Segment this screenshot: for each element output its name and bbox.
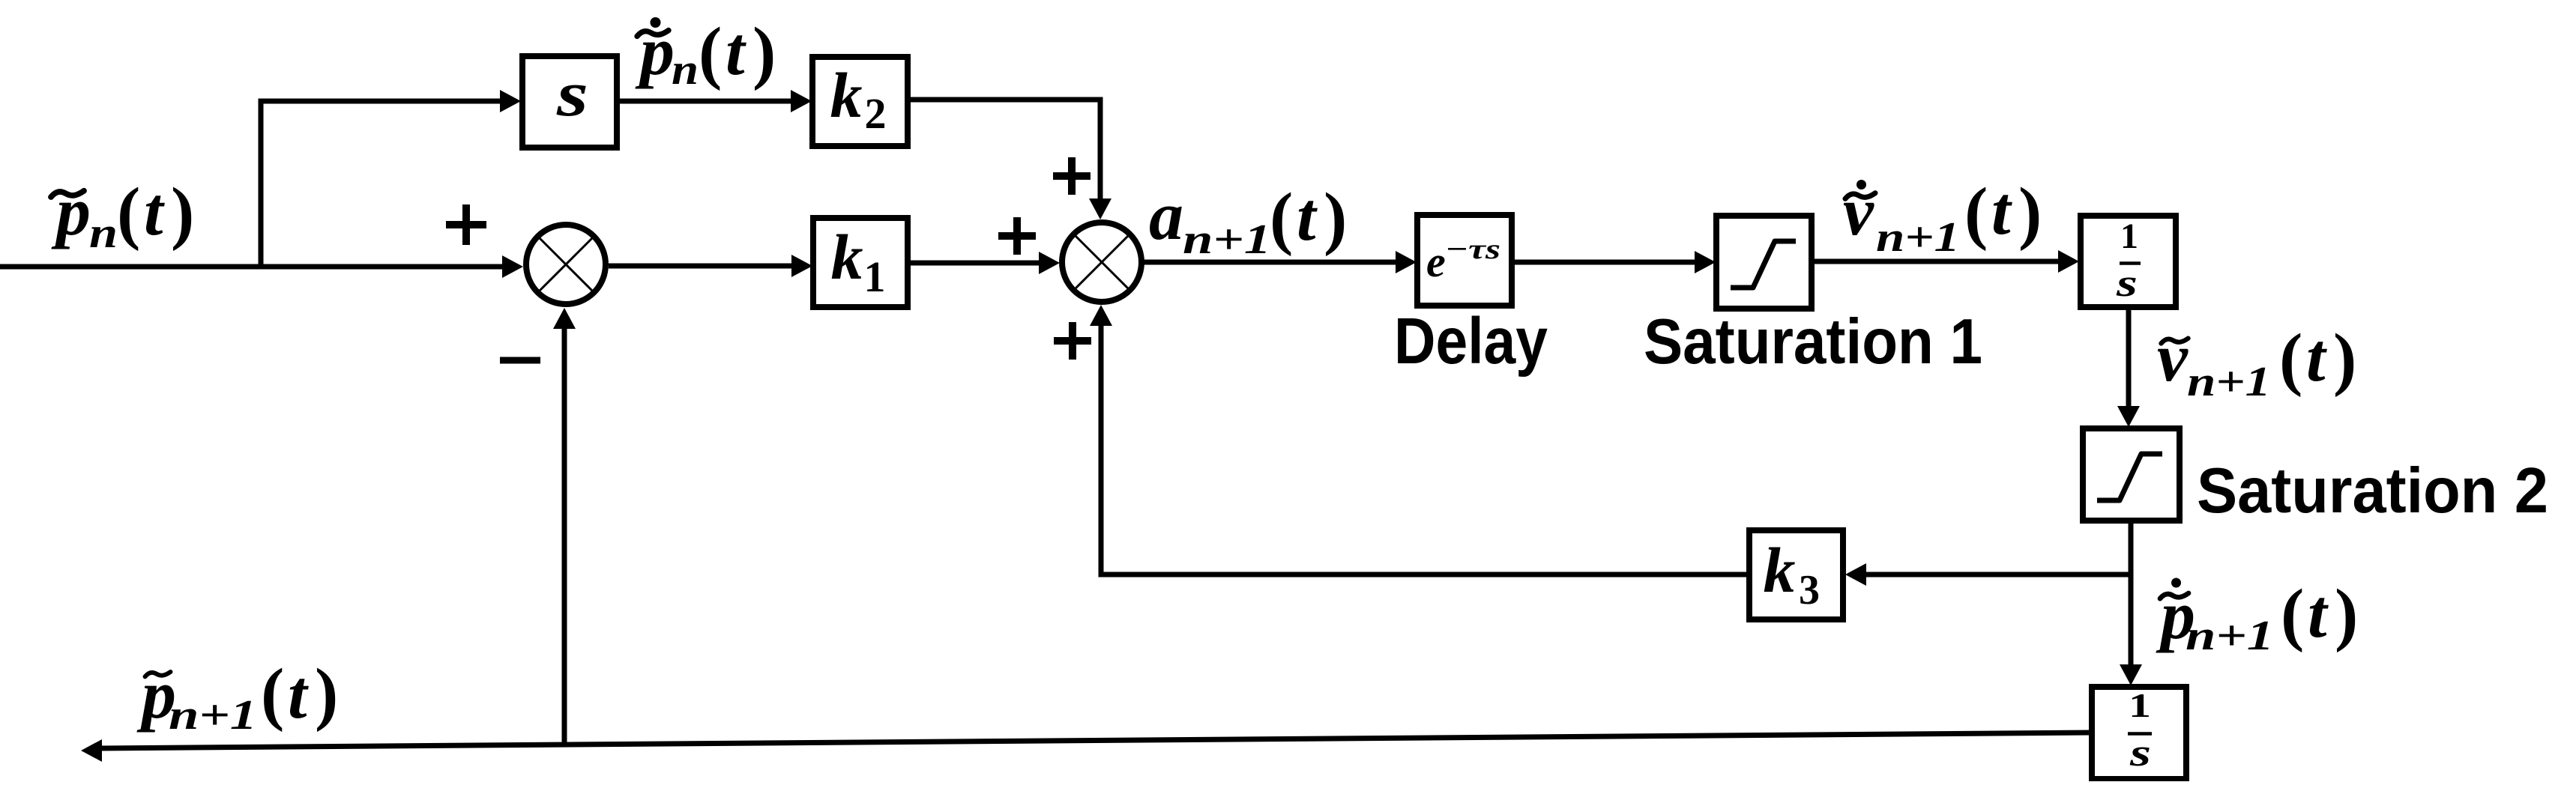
svg-text:t: t bbox=[288, 656, 309, 733]
svg-text:a: a bbox=[1149, 178, 1183, 254]
svg-text:Delay: Delay bbox=[1394, 305, 1548, 378]
svg-text:(: ( bbox=[117, 174, 140, 252]
svg-text:): ) bbox=[2333, 320, 2356, 398]
svg-text:n: n bbox=[672, 45, 699, 94]
svg-text:1: 1 bbox=[864, 252, 886, 301]
svg-text:t: t bbox=[144, 173, 165, 249]
svg-text:(: ( bbox=[261, 655, 284, 733]
svg-text:n: n bbox=[89, 208, 118, 257]
svg-text:2: 2 bbox=[865, 89, 887, 138]
svg-text:3: 3 bbox=[1799, 567, 1820, 613]
svg-text:(: ( bbox=[2279, 320, 2302, 398]
svg-text:Saturation 1: Saturation 1 bbox=[1644, 306, 1982, 378]
svg-text:(: ( bbox=[1270, 179, 1293, 257]
svg-text:n+1: n+1 bbox=[2187, 359, 2271, 405]
svg-text:k: k bbox=[1764, 534, 1796, 606]
svg-text:n+1: n+1 bbox=[1183, 216, 1271, 263]
svg-text:s: s bbox=[2116, 262, 2138, 305]
svg-text:n+1: n+1 bbox=[2186, 613, 2274, 659]
svg-text:−τs: −τs bbox=[1445, 234, 1500, 265]
svg-text:1: 1 bbox=[2120, 216, 2138, 256]
svg-text:t: t bbox=[2306, 319, 2327, 395]
svg-text:s: s bbox=[2129, 732, 2151, 775]
svg-text:k: k bbox=[831, 221, 863, 293]
svg-text:Saturation 2: Saturation 2 bbox=[2197, 455, 2548, 527]
svg-text:k: k bbox=[830, 59, 863, 131]
svg-text:t: t bbox=[2308, 575, 2329, 652]
svg-text:): ) bbox=[752, 13, 776, 91]
svg-text:v: v bbox=[2157, 319, 2189, 395]
svg-text:s: s bbox=[556, 58, 588, 130]
svg-text:e: e bbox=[1426, 237, 1446, 286]
svg-text:n+1: n+1 bbox=[1876, 214, 1960, 261]
svg-text:(: ( bbox=[1964, 174, 1988, 252]
svg-text:(: ( bbox=[2281, 575, 2304, 653]
svg-text:t: t bbox=[1297, 178, 1318, 255]
svg-text:p: p bbox=[51, 173, 91, 249]
svg-text:t: t bbox=[1991, 172, 2012, 249]
svg-text:(: ( bbox=[699, 13, 722, 91]
svg-text:t: t bbox=[726, 13, 746, 89]
svg-text:): ) bbox=[2335, 575, 2358, 653]
svg-text:): ) bbox=[1324, 179, 1347, 257]
svg-text:): ) bbox=[2018, 174, 2042, 252]
svg-text:): ) bbox=[315, 655, 338, 733]
svg-text:n+1: n+1 bbox=[169, 692, 257, 739]
svg-text:1: 1 bbox=[2129, 687, 2151, 724]
svg-text:): ) bbox=[171, 174, 194, 252]
